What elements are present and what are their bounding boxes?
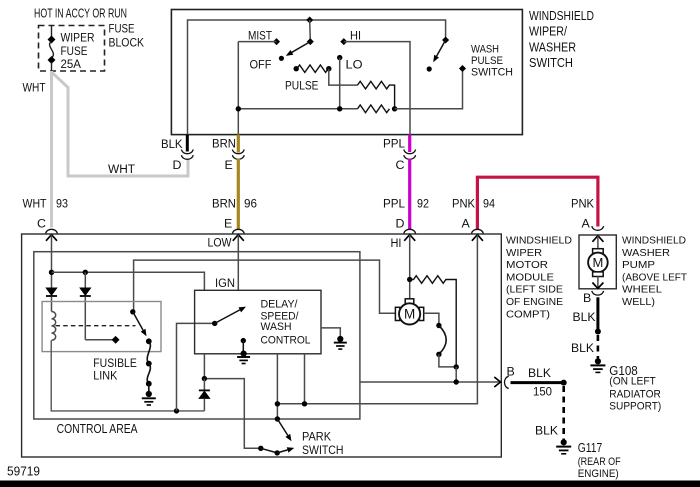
wire HI to PPL rail [344, 42, 410, 135]
wire LO down to bus [339, 58, 341, 109]
fuse WIPER FUSE 25A [48, 26, 95, 72]
wire BRN 96 [237, 159, 240, 230]
node LO terminal [337, 55, 342, 60]
label WINDSHIELD WIPER/WASHER SWITCH [529, 8, 594, 70]
node diode2 junction [83, 270, 88, 275]
wire cam to bypass [439, 354, 456, 367]
ground delay right pin [321, 328, 347, 349]
svg-text:MOTOR: MOTOR [506, 259, 548, 271]
svg-text:92: 92 [417, 197, 429, 211]
arrow into pump [592, 236, 603, 242]
node pivot [307, 38, 314, 45]
connector arc B pump [592, 291, 604, 295]
connector arc A entry [472, 229, 484, 233]
node pin3 at inner box bottom [275, 416, 280, 421]
arrow A into box [472, 235, 483, 241]
svg-text:SWITCH: SWITCH [471, 67, 513, 79]
svg-text:WASHER: WASHER [529, 39, 576, 54]
svg-text:PPL: PPL [383, 197, 405, 211]
svg-text:150: 150 [533, 385, 552, 399]
label G117 (REAR OF ENGINE) [578, 441, 621, 480]
inner connection box [34, 252, 360, 419]
svg-text:BLK: BLK [573, 310, 597, 324]
svg-text:HOT IN ACCY OR RUN: HOT IN ACCY OR RUN [34, 6, 127, 21]
svg-text:B: B [583, 291, 591, 305]
node coil return junction [174, 408, 179, 413]
wire MIST to BRN rail [238, 41, 276, 43]
svg-text:CONTROL: CONTROL [261, 334, 311, 346]
node park blade end [275, 450, 280, 455]
svg-text:PARK: PARK [302, 431, 331, 444]
wire IGN feed [52, 272, 205, 290]
resistor motor bypass [410, 276, 457, 367]
svg-text:59719: 59719 [7, 465, 40, 479]
svg-text:PULSE: PULSE [285, 79, 319, 93]
node pin4 at PNK bus [302, 401, 307, 406]
wire delay arm feed [177, 323, 215, 411]
connector arc B exit [505, 376, 509, 388]
svg-text:WIPER: WIPER [61, 31, 95, 45]
fusible link squiggle to ground [146, 338, 152, 392]
switch blade wash pulse [427, 40, 446, 72]
wire BLK 150 [511, 381, 564, 384]
svg-text:RADIATOR: RADIATOR [609, 388, 661, 400]
svg-text:COMPT): COMPT) [506, 308, 550, 320]
wire pivot stem [309, 20, 312, 42]
label PARK SWITCH [302, 431, 344, 457]
node PULSE right [326, 66, 331, 71]
coil winding [52, 312, 56, 341]
fuse block dashed box [39, 26, 105, 72]
wire motor to park cam [424, 313, 439, 325]
wire BLK stub [186, 135, 189, 152]
diode D3 [199, 379, 210, 411]
svg-text:CONTROL AREA: CONTROL AREA [57, 421, 138, 436]
ground G108 [590, 358, 605, 372]
label DELAY/SPEED/WASH CONTROL [261, 299, 311, 347]
wire delay pin to park feed [204, 354, 258, 449]
svg-text:LINK: LINK [93, 369, 118, 383]
park cam arc [439, 326, 446, 355]
svg-text:BLK: BLK [161, 137, 183, 151]
wire B bus [360, 381, 499, 383]
connector D break [181, 150, 193, 160]
connector E break [232, 150, 244, 160]
ground G117 [556, 439, 571, 454]
label FUSIBLE LINK [93, 356, 137, 383]
svg-text:D: D [396, 216, 405, 230]
svg-text:M: M [592, 255, 603, 270]
svg-text:WASH: WASH [471, 44, 499, 56]
label FUSE BLOCK [109, 22, 145, 50]
node delay blade pivot [212, 321, 217, 326]
washer pump box [579, 235, 616, 289]
label PPL 92 [383, 197, 429, 211]
switch blade park upper [277, 419, 291, 441]
wire BLK dashed to G117 [562, 386, 565, 440]
svg-text:HI: HI [391, 236, 402, 250]
svg-text:WASH: WASH [261, 321, 292, 333]
node HI resistor junction [407, 277, 412, 282]
wire pulse to mid resistor [329, 69, 358, 85]
svg-text:WHEEL: WHEEL [622, 284, 662, 296]
node cam top [436, 323, 441, 328]
node resistor junction [392, 106, 397, 111]
svg-text:MODULE: MODULE [506, 271, 554, 283]
switch blade delay [215, 307, 246, 324]
motor M1 wiper [395, 299, 423, 325]
switch blade MIST/OFF [279, 42, 311, 61]
wire delay pin 4 down [304, 354, 306, 404]
svg-text:HI: HI [350, 29, 361, 43]
svg-text:PULSE: PULSE [471, 55, 503, 67]
svg-text:WHT: WHT [23, 80, 46, 94]
label G108 (ON LEFT RADIATOR SUPPORT) [609, 364, 661, 413]
svg-text:BLOCK: BLOCK [109, 36, 145, 50]
control area outer box [22, 234, 502, 457]
wire bottom bus left [238, 108, 357, 110]
node PULSE left [294, 66, 299, 71]
label BLK 150 [528, 366, 552, 399]
svg-text:FUSE: FUSE [61, 44, 88, 58]
ground delay internal [237, 338, 250, 364]
svg-text:BLK: BLK [528, 366, 552, 380]
node bypass junction [454, 364, 459, 369]
label PNK 94 [452, 197, 495, 211]
node pin3 at PNK bus [275, 401, 280, 406]
wire C feed down [51, 235, 53, 288]
dashed actuation link [56, 325, 136, 327]
svg-text:OFF: OFF [250, 58, 272, 72]
svg-text:DELAY/: DELAY/ [261, 299, 298, 311]
node wash switch contact [459, 65, 466, 72]
switch blade park lower [277, 447, 294, 453]
wire PPL 92 [408, 159, 411, 230]
arrow HI into box [404, 235, 415, 241]
wire BRN inner rail [237, 42, 239, 135]
svg-text:BRN: BRN [212, 197, 236, 211]
svg-text:SWITCH: SWITCH [529, 55, 573, 70]
svg-text:(ON LEFT: (ON LEFT [609, 376, 656, 388]
svg-text:PPL: PPL [383, 137, 405, 151]
wire park contact link [261, 448, 277, 453]
svg-text:WASHER: WASHER [622, 247, 670, 259]
wire LOW feed down [237, 235, 239, 291]
switch blade relay [133, 312, 147, 337]
svg-text:B: B [507, 365, 515, 379]
resistor pulse [297, 65, 328, 72]
svg-text:BLK: BLK [535, 424, 559, 438]
svg-text:(REAR OF: (REAR OF [578, 456, 621, 468]
arrow C into box [46, 235, 57, 241]
svg-text:C: C [37, 216, 46, 230]
resistor mid [358, 81, 395, 109]
arrow LOW into box [233, 235, 244, 241]
svg-text:C: C [396, 158, 405, 172]
wire bypass to B bus [455, 367, 457, 382]
svg-text:WINDSHIELD: WINDSHIELD [506, 235, 572, 247]
wire relay bus to motor [134, 260, 397, 313]
label WINDSHIELD WIPER MOTOR MODULE [506, 235, 572, 321]
svg-text:93: 93 [56, 197, 68, 211]
svg-text:(LEFT SIDE: (LEFT SIDE [506, 284, 563, 296]
svg-text:PNK: PNK [452, 197, 476, 211]
connector arc E entry [232, 229, 244, 233]
svg-text:E: E [224, 216, 232, 230]
wire coil return [51, 340, 204, 411]
svg-text:WHT: WHT [23, 197, 47, 211]
svg-text:25A: 25A [61, 57, 82, 71]
node wash switch top [442, 36, 449, 43]
node MIST terminal [273, 38, 280, 45]
motor M2 washer pump [588, 236, 608, 288]
wire A feed down and across [277, 235, 477, 404]
label WINDSHIELD WASHER PUMP [622, 235, 688, 309]
node B bus junction [454, 379, 459, 384]
svg-text:LO: LO [346, 58, 363, 72]
diode D1 [46, 288, 57, 312]
svg-text:WINDSHIELD: WINDSHIELD [622, 235, 686, 247]
label WHT 93 [23, 197, 69, 211]
node relay blade pivot [130, 309, 135, 314]
label BRN 96 [212, 197, 257, 211]
label WASH PULSE SWITCH [471, 44, 513, 79]
wire delay pin 3 down [276, 354, 278, 419]
svg-text:LOW: LOW [208, 236, 232, 250]
arrow out of pump [592, 283, 603, 289]
svg-text:BLK: BLK [571, 341, 595, 355]
fusible link relay box [42, 302, 161, 352]
connector C break (PPL) [404, 150, 416, 160]
svg-text:PNK: PNK [571, 197, 595, 211]
bottom bar [0, 481, 700, 487]
svg-text:D: D [173, 158, 182, 172]
connector arc A pump [592, 226, 604, 230]
svg-text:A: A [582, 216, 591, 230]
wire WHT branch to connector D [52, 72, 189, 176]
svg-text:A: A [462, 216, 471, 230]
diode D2 [80, 272, 91, 340]
wire relay arm with diamond tip [85, 336, 119, 344]
svg-text:WINDSHIELD: WINDSHIELD [529, 8, 594, 23]
svg-text:ENGINE): ENGINE) [578, 468, 619, 480]
wire PPL stub [408, 135, 411, 152]
svg-text:FUSE: FUSE [109, 22, 135, 36]
wire WHT from fuse to connector C [50, 71, 53, 228]
node park fixed contact [258, 446, 263, 451]
node BLK 150 junction [561, 380, 567, 386]
node HI terminal [340, 38, 347, 45]
node bus at BRN [236, 106, 241, 111]
svg-text:WHT: WHT [108, 162, 135, 176]
connector arc C entry [46, 229, 58, 233]
wire PNK 94 bridge [477, 177, 598, 229]
wire HI feed down [409, 235, 411, 299]
svg-text:BRN: BRN [212, 137, 236, 151]
svg-text:E: E [225, 158, 233, 172]
wire BLK dashed to G108 [597, 335, 600, 359]
delay/speed/wash control box [195, 290, 321, 354]
svg-text:SUPPORT): SUPPORT) [609, 401, 661, 413]
wire BRN stub [237, 135, 240, 153]
ground fusible link [142, 391, 156, 405]
svg-text:WIPER/: WIPER/ [529, 24, 567, 39]
svg-text:OF ENGINE: OF ENGINE [506, 296, 563, 308]
resistor low [358, 105, 390, 113]
svg-text:WIPER: WIPER [506, 247, 542, 259]
connector arc D entry [404, 229, 416, 233]
arrow B out of box [494, 377, 500, 387]
wire switch inner top rail [188, 20, 446, 135]
svg-text:96: 96 [244, 197, 257, 211]
svg-text:(ABOVE LEFT: (ABOVE LEFT [622, 271, 688, 283]
svg-text:IGN: IGN [215, 276, 235, 290]
node BLK pump junction [595, 329, 601, 335]
wire bus right to wash contact [395, 69, 463, 109]
windshield wiper/washer switch box [171, 10, 522, 135]
node delay pin junction [202, 376, 207, 381]
node C feed junction [49, 270, 54, 275]
svg-text:PUMP: PUMP [622, 259, 655, 271]
wire BLK pump [596, 297, 599, 331]
svg-text:94: 94 [483, 197, 495, 211]
svg-text:MIST: MIST [248, 29, 273, 43]
node cam bottom [436, 352, 441, 357]
svg-text:SWITCH: SWITCH [302, 444, 344, 457]
node bus at LO [337, 106, 342, 111]
svg-text:M: M [404, 307, 415, 322]
svg-text:WELL): WELL) [622, 296, 655, 308]
svg-text:G117: G117 [578, 441, 603, 455]
node junction on top rail [306, 16, 313, 23]
